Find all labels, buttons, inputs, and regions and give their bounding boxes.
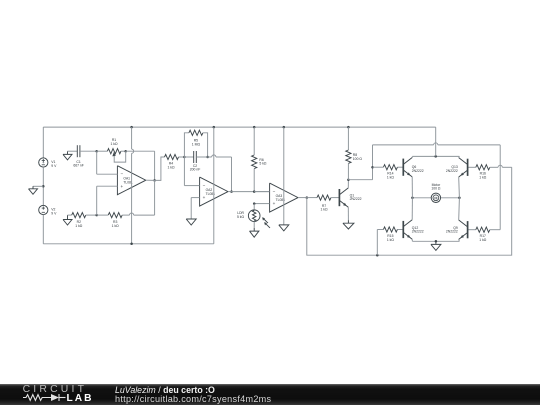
svg-text:2N2222: 2N2222: [446, 230, 458, 234]
svg-text:2N2222: 2N2222: [412, 169, 424, 173]
svg-text:100 Ω: 100 Ω: [431, 187, 441, 191]
svg-text:5 kΩ: 5 kΩ: [259, 162, 267, 166]
svg-text:1 kΩ: 1 kΩ: [387, 238, 395, 242]
svg-text:2N2222: 2N2222: [412, 230, 424, 234]
svg-text:100 Ω: 100 Ω: [353, 157, 363, 161]
svg-text:1 kΩ: 1 kΩ: [387, 175, 395, 179]
svg-text:1 kΩ: 1 kΩ: [75, 224, 83, 228]
svg-text:1 MΩ: 1 MΩ: [192, 142, 201, 146]
svg-text:1 kΩ: 1 kΩ: [110, 142, 118, 146]
svg-text:1 kΩ: 1 kΩ: [479, 175, 487, 179]
svg-text:1 kΩ: 1 kΩ: [320, 208, 328, 212]
svg-text:9 V: 9 V: [51, 211, 57, 215]
svg-text:200 nF: 200 nF: [190, 168, 201, 172]
svg-text:5 kΩ: 5 kΩ: [237, 215, 245, 219]
svg-text:9 V: 9 V: [51, 164, 57, 168]
svg-text:2N2222: 2N2222: [350, 197, 362, 201]
svg-text:2N2222: 2N2222: [446, 169, 458, 173]
svg-text:1 kΩ: 1 kΩ: [112, 224, 120, 228]
svg-text:1 kΩ: 1 kΩ: [167, 165, 175, 169]
svg-text:1 kΩ: 1 kΩ: [479, 238, 487, 242]
svg-text:667 nF: 667 nF: [73, 164, 84, 168]
